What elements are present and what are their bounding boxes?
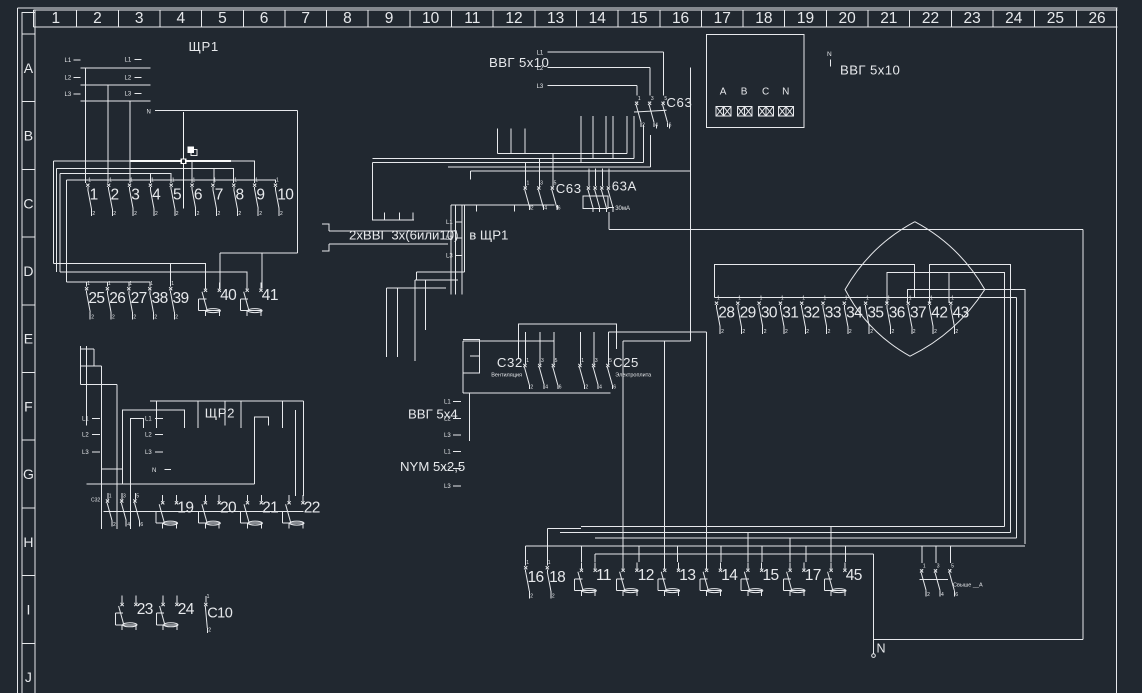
wire [633,116,635,159]
wire bus [150,400,304,402]
wire [60,173,171,183]
breaker 34 [843,296,863,336]
wire [450,205,452,295]
wire bus [581,526,1005,528]
svg-text:3: 3 [540,181,543,187]
svg-text:L2: L2 [444,416,451,422]
wire [510,128,512,153]
svg-text:L2: L2 [65,76,72,82]
node L3 [446,253,462,259]
svg-text:1: 1 [845,296,848,302]
wire [261,253,263,288]
svg-text:1: 1 [717,296,720,302]
svg-text:16: 16 [672,10,689,27]
svg-text:32: 32 [804,305,820,322]
svg-text:20: 20 [220,499,237,516]
breaker 3 [128,178,139,218]
wire [605,116,607,154]
wire [282,401,284,428]
breaker 36 [885,296,904,336]
meter terminal A [716,87,731,117]
wire [54,263,206,288]
svg-text:3: 3 [131,187,139,204]
svg-text:17: 17 [805,567,821,584]
node N [147,110,164,116]
svg-text:1: 1 [923,563,926,569]
svg-text:21: 21 [880,10,897,27]
svg-text:30: 30 [761,305,778,322]
wire [372,163,414,220]
wire [84,68,86,183]
svg-text:42: 42 [931,305,947,322]
svg-text:5: 5 [555,358,558,364]
wire [302,401,304,496]
wire [538,159,540,187]
breaker 5 [170,178,181,218]
svg-text:2: 2 [197,211,200,217]
svg-text:3: 3 [937,563,940,569]
svg-text:6: 6 [194,187,202,204]
wire [86,282,88,286]
svg-text:2: 2 [93,10,102,27]
RCD breaker 13 [658,562,695,596]
svg-text:2: 2 [208,628,211,634]
svg-text:F: F [24,398,33,414]
svg-text:C: C [23,195,33,211]
wire [384,212,386,219]
wire [461,205,463,295]
wire [514,205,516,212]
wire tie of C63 poles [634,110,667,112]
breaker 26 [106,281,125,321]
breaker 25 [85,281,104,321]
svg-text:С32: С32 [497,355,523,370]
svg-text:18: 18 [755,10,772,27]
breaker 10 [274,178,294,218]
svg-text:2: 2 [552,594,555,600]
svg-text:17: 17 [714,10,731,27]
wire distribution bus [714,297,1016,299]
wire N [158,110,298,112]
svg-text:5: 5 [136,494,139,500]
svg-text:2: 2 [849,329,852,335]
svg-text:2: 2 [176,211,179,217]
svg-text:2: 2 [955,329,958,335]
cable label ВВГ 5х4 [408,340,480,439]
breaker 42 [928,296,947,336]
wire [462,341,464,393]
svg-text:22: 22 [922,10,939,27]
op C25 [578,358,616,391]
svg-text:1: 1 [172,178,175,184]
wire [463,205,465,272]
svg-text:34: 34 [846,305,863,322]
svg-text:1: 1 [581,358,584,364]
svg-text:L2: L2 [145,433,152,439]
svg-text:1: 1 [150,281,153,287]
wire [714,265,914,298]
wire [106,282,108,286]
svg-text:43: 43 [953,305,969,322]
svg-text:10: 10 [277,187,294,204]
svg-text:5: 5 [218,10,227,27]
svg-text:4: 4 [127,522,130,528]
wire [81,384,118,386]
wire bus N [595,553,874,555]
wire [220,252,297,254]
wire [579,332,581,364]
wire [552,153,554,186]
wire [463,392,611,394]
svg-text:B: B [741,87,748,98]
wire [412,212,414,219]
wire [296,111,298,254]
svg-text:L3: L3 [446,253,453,259]
wire [580,116,582,163]
bus L1 [81,67,151,69]
wire [81,348,94,350]
svg-text:6: 6 [140,522,143,528]
svg-text:N: N [152,468,156,474]
svg-text:29: 29 [740,305,756,322]
wire bus [526,545,1025,547]
svg-text:L1: L1 [125,58,132,64]
meter terminal C [759,87,774,117]
box C32/C25 [519,324,617,359]
svg-text:4: 4 [599,385,602,391]
svg-text:4: 4 [545,385,548,391]
breaker 29 [736,296,755,336]
wire [930,265,1011,533]
wire bus [104,511,304,513]
svg-text:12: 12 [505,10,522,27]
wire [240,401,242,428]
svg-text:D: D [23,263,33,279]
cable label ВВГ 5х10 [840,63,900,78]
wire [80,346,82,385]
svg-text:L1: L1 [537,50,544,56]
svg-text:G: G [23,466,34,482]
svg-text:41: 41 [262,287,278,304]
wire [255,417,269,484]
svg-text:1: 1 [88,178,91,184]
bus L3 [81,100,151,102]
svg-text:12: 12 [638,567,654,584]
wire [626,116,628,154]
svg-text:5: 5 [609,358,612,364]
svg-text:45: 45 [846,567,862,584]
wire [789,538,791,562]
svg-text:30мА: 30мА [615,206,630,212]
wire [650,135,652,167]
svg-text:24: 24 [178,601,195,618]
breaker 32 [800,296,819,336]
svg-text:18: 18 [549,569,565,586]
value label C63 [666,95,692,110]
wire [593,332,595,364]
svg-text:16: 16 [528,569,544,586]
svg-text:13: 13 [679,567,695,584]
breaker 31 [779,296,798,336]
wire [874,639,1084,641]
meter terminal box [707,35,804,128]
svg-text:1: 1 [526,560,529,566]
svg-text:L1: L1 [82,417,89,423]
svg-text:2: 2 [927,592,930,598]
wire [463,340,554,342]
wire [921,546,923,563]
svg-text:15: 15 [763,567,779,584]
breaker 33 [821,296,840,336]
node N (riser) [827,51,832,66]
svg-text:4: 4 [941,592,944,598]
svg-text:I: I [26,601,30,617]
wire [373,158,634,160]
svg-text:2: 2 [113,522,116,528]
RCD breaker 17 [783,562,820,596]
svg-text:2: 2 [133,315,136,321]
RCD breaker 12 [616,562,653,596]
svg-text:11: 11 [596,567,611,584]
wire [149,282,151,286]
wire [886,272,1004,526]
svg-text:С32: С32 [91,498,100,504]
wire [56,168,58,272]
svg-text:2: 2 [892,329,895,335]
svg-text:1: 1 [909,296,912,302]
zone marker cloud [845,222,985,357]
node L2 [125,76,142,82]
bus L2 [81,84,151,86]
RCD breaker 22 [282,495,319,529]
svg-text:37: 37 [910,305,926,322]
wire [546,528,548,565]
svg-text:L2: L2 [125,76,132,82]
wire [805,546,807,562]
cable 2хВВГ 3х(6или10) в ЩР1 [322,224,508,251]
wire [642,125,644,163]
wire [524,332,526,341]
svg-text:33: 33 [825,305,841,322]
wire [669,125,671,129]
breaker 16 [524,560,543,600]
wire [496,128,498,153]
wire [415,272,417,280]
svg-text:1: 1 [109,494,112,500]
svg-text:2: 2 [870,329,873,335]
node N terminal [872,642,886,658]
svg-text:1: 1 [276,178,279,184]
panel label ЩР2 [205,406,235,421]
svg-text:A: A [24,60,34,76]
wire [86,346,88,426]
wire bus [560,532,1011,534]
svg-text:2: 2 [134,211,137,217]
svg-text:Свыше __А: Свыше __А [953,583,983,589]
svg-text:63А: 63А [612,179,637,194]
svg-text:10: 10 [422,10,440,27]
wire [949,546,951,563]
node L3 [145,450,163,456]
svg-text:26: 26 [1088,10,1105,27]
label Свыше __А [953,583,983,589]
wire [609,229,1083,231]
svg-text:22: 22 [304,499,320,516]
node L1 [537,50,555,56]
wire [594,554,596,562]
svg-text:1: 1 [171,281,174,287]
svg-text:15: 15 [630,10,647,27]
wire [549,84,638,86]
RCD breaker 40 [199,282,237,316]
svg-text:11: 11 [464,10,480,27]
wire [455,205,457,295]
wire [387,287,447,289]
wire [425,280,427,330]
node L1 [125,58,142,64]
RCD breaker 24 [156,596,194,631]
wire [636,85,638,95]
svg-text:2: 2 [259,211,262,217]
svg-text:7: 7 [301,10,310,27]
wire [689,68,691,341]
svg-text:39: 39 [173,290,189,307]
svg-text:38: 38 [152,290,168,307]
wire [844,546,846,562]
svg-text:1: 1 [802,296,805,302]
svg-text:4: 4 [176,10,185,27]
RCD 63A 30mA [583,179,637,213]
svg-text:С25: С25 [613,355,639,370]
wire [213,168,215,183]
breaker 30 [758,296,778,336]
svg-text:2: 2 [92,211,95,217]
svg-text:36: 36 [889,305,905,322]
wire [448,166,651,168]
svg-text:N: N [147,110,151,116]
wire [191,161,193,183]
wire [415,279,458,281]
svg-text:1: 1 [887,296,890,302]
wire [886,272,888,303]
svg-text:5: 5 [173,187,181,204]
meter terminal B [737,87,752,117]
svg-text:ЩР2: ЩР2 [205,406,235,421]
wire [524,341,526,364]
svg-text:1: 1 [108,281,111,287]
wire [469,171,471,180]
wire [397,288,399,357]
wire [130,419,143,484]
node L3 [125,92,142,98]
wire [53,161,55,263]
svg-text:2: 2 [828,329,831,335]
node L2 [82,433,100,439]
svg-text:14: 14 [721,567,738,584]
svg-text:1: 1 [738,296,741,302]
svg-text:1: 1 [866,296,869,302]
wire [219,253,221,288]
svg-text:1: 1 [548,560,551,566]
node L1 [65,58,81,64]
svg-text:L2: L2 [444,466,451,472]
wire [612,116,614,159]
svg-text:26: 26 [109,290,125,307]
svg-text:8: 8 [236,187,244,204]
wire [920,579,948,581]
node L3 [82,450,100,456]
svg-text:1: 1 [527,181,530,187]
wire [295,410,297,496]
wire [386,288,388,357]
svg-text:L1: L1 [145,417,152,423]
wire [747,533,749,563]
breaker 6 [190,178,201,218]
wire [476,205,478,212]
wire [59,173,61,272]
RCD breaker 11 [575,562,611,596]
svg-text:Вентиляция: Вентиляция [491,373,522,379]
node L1 [446,220,462,226]
wire [470,170,690,172]
wire [553,341,555,364]
node L2 [145,433,163,439]
svg-text:C10: C10 [207,606,233,622]
wire [588,169,590,187]
cursor crosshair [54,112,255,209]
wire [663,52,665,95]
svg-text:6: 6 [559,385,562,391]
svg-text:L2: L2 [537,66,544,72]
RCD breaker 21 [241,495,278,529]
svg-text:2: 2 [110,187,118,204]
wire [398,212,400,219]
wire [608,169,610,187]
wire [1016,298,1018,539]
svg-text:2: 2 [238,211,241,217]
svg-text:L2: L2 [82,433,89,439]
svg-text:19: 19 [177,499,193,516]
breaker 37 [907,296,926,336]
svg-text:8: 8 [343,10,352,27]
wire [720,546,722,562]
svg-text:6: 6 [955,592,958,598]
wire [649,67,651,95]
wire [595,169,597,187]
wire [539,341,541,364]
svg-text:С63: С63 [556,181,582,196]
svg-text:E: E [24,331,33,347]
svg-text:L1: L1 [446,220,453,226]
svg-text:1: 1 [638,96,641,102]
svg-text:9: 9 [256,187,264,204]
wire [524,128,526,153]
svg-text:NYM 5х2,5: NYM 5х2,5 [400,459,465,474]
svg-text:31: 31 [782,305,798,322]
svg-text:L3: L3 [444,484,451,490]
RCD breaker 45 [824,562,861,596]
svg-text:1: 1 [234,178,237,184]
wire [761,546,763,562]
svg-text:2: 2 [530,385,533,391]
wire [101,470,103,529]
svg-text:C: C [762,87,769,98]
breaker C10 [204,594,233,634]
svg-text:L1: L1 [444,399,451,405]
svg-text:1: 1 [781,296,784,302]
row letter strip A-J [22,13,35,685]
wire [416,271,464,273]
